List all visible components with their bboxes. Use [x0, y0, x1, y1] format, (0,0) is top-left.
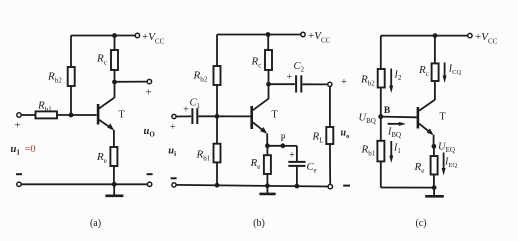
svg-text:P: P [280, 133, 285, 143]
wire Re upper c [433, 146, 435, 156]
wire Rb2 lower a [70, 86, 72, 115]
node B c [378, 114, 383, 119]
wire collector vertical b [268, 70, 270, 99]
svg-text:T: T [272, 110, 278, 121]
node emitter P junction b [265, 143, 270, 148]
label minus bottom left a [16, 173, 22, 175]
wire top rail a [71, 35, 135, 37]
node collector C2 tap b [266, 82, 271, 87]
svg-text:T: T [440, 112, 446, 123]
terminal +Vcc a [135, 33, 139, 37]
terminal +Vcc b [301, 32, 305, 36]
terminal output bottom b [328, 184, 332, 188]
transistor T a base bar [97, 104, 100, 125]
label minus bottom right a [147, 173, 153, 175]
terminal bottom left a [17, 182, 21, 186]
svg-text:B: B [384, 106, 391, 116]
node base junction a [69, 113, 74, 118]
transistor T b base bar [250, 106, 253, 129]
node Re bottom junction b [265, 183, 270, 188]
resistor Rc b [265, 50, 272, 70]
resistor Rc a [111, 50, 118, 70]
capacitor C1 b [191, 108, 193, 124]
wire Rc top b [267, 35, 269, 51]
svg-text:+: + [289, 150, 295, 161]
wire top rail b [217, 34, 301, 36]
ground c [433, 188, 435, 196]
transistor T c emitter diagonal with arrow [419, 124, 432, 134]
resistor Rb1 b [214, 144, 221, 163]
wire Rc top c [434, 36, 436, 64]
wire Re to bottom rail a [113, 166, 115, 184]
resistor Rc c [432, 63, 439, 81]
wire Ce branch down b [296, 146, 298, 161]
current arrow IEQ c [443, 153, 445, 170]
wire Re lower b [266, 174, 268, 186]
transistor T c collector diagonal [419, 100, 435, 111]
wire Rc top a [114, 36, 116, 51]
transistor T c base bar [417, 107, 420, 129]
node bottom junction c [432, 185, 437, 190]
svg-text:+: + [286, 72, 292, 83]
resistor Re b [264, 155, 271, 174]
wire collector to output terminal a [115, 81, 148, 83]
wire input to C1 b [176, 115, 191, 117]
node top-rail/Rc junction a [112, 33, 117, 38]
node base junction b [215, 114, 220, 119]
resistor Rb2 c [378, 69, 385, 88]
current arrow IBQ c [388, 123, 401, 125]
wire RL to bottom terminal b [329, 144, 331, 184]
svg-text:+: + [341, 77, 347, 88]
wire C2 to output terminal b [303, 83, 328, 85]
svg-text:+: + [145, 87, 151, 99]
resistor Rb1 a [36, 111, 58, 118]
resistor Rb2 a [68, 67, 75, 86]
svg-text:(c): (c) [415, 218, 426, 229]
wire collector vertical a [114, 70, 116, 98]
terminal bottom left b [172, 183, 176, 187]
node UEQ c [432, 144, 437, 149]
ground b [266, 186, 268, 193]
terminal output top a [147, 79, 151, 83]
svg-text:+: + [183, 105, 189, 116]
current arrow I2 c [390, 69, 392, 88]
transistor T b collector diagonal [253, 99, 269, 111]
node bottom rail junction a [112, 182, 117, 187]
node collector output tap a [112, 80, 117, 85]
wire Rb2 upper a [70, 36, 72, 68]
resistor Re a [110, 147, 117, 166]
wire Rb1 to base a [57, 114, 97, 116]
wire top rail c [381, 35, 468, 37]
wire emitter vertical c [433, 135, 435, 147]
wire Rb1 lower b [216, 162, 218, 185]
wire Rb2 upper c [380, 36, 382, 69]
label minus output b [343, 185, 350, 187]
node top-rail/Rc junction c [433, 33, 438, 38]
wire Rb2 upper b [216, 35, 218, 67]
current arrow I1 c [390, 141, 392, 157]
wire collector vertical c [434, 81, 436, 100]
transistor T b emitter diagonal with arrow [253, 122, 266, 132]
wire emitter vertical b [266, 133, 268, 145]
wire bottom rail b [176, 185, 328, 187]
current arrow ICQ c [444, 63, 446, 78]
wire Rb1 upper b [216, 116, 218, 143]
wire Rb1 upper c [380, 117, 382, 141]
svg-text:(b): (b) [253, 218, 265, 229]
wire C1 to base junction b [198, 115, 250, 117]
capacitor C2 b [295, 75, 297, 92]
ground a [113, 184, 115, 195]
wire Rb1 lower c [380, 161, 382, 187]
resistor RL b [326, 127, 333, 144]
capacitor Ce b [288, 161, 305, 163]
wire input to Rb1 a [21, 114, 35, 116]
wire Re upper b [266, 146, 268, 155]
terminal input a [17, 113, 21, 117]
terminal +Vcc c [468, 33, 472, 37]
node Ce bottom junction b [295, 184, 300, 189]
node top-rail/Rc junction b [266, 32, 271, 37]
resistor Rb2 b [214, 66, 221, 85]
svg-text:(a): (a) [90, 218, 101, 229]
transistor T a emitter diagonal with arrow [99, 120, 113, 130]
svg-text:=0: =0 [25, 144, 36, 155]
wire P to Ce corner b [267, 145, 297, 147]
wire Rb2 lower c [380, 88, 382, 117]
label minus bottom left b [171, 177, 177, 179]
transistor T a collector diagonal [99, 98, 115, 109]
wire output to RL b [329, 87, 331, 127]
wire Re lower c [433, 175, 435, 188]
svg-text:+: + [170, 122, 176, 133]
wire bottom rail c [381, 187, 437, 189]
resistor Rb1 c [377, 141, 384, 162]
resistor Re c [431, 156, 438, 175]
wire emitter vertical a [113, 130, 115, 147]
node Rb1 bottom junction b [215, 183, 220, 188]
wire Rb2 lower b [216, 85, 218, 116]
svg-text:T: T [119, 110, 125, 121]
terminal input b [172, 114, 176, 118]
node P dot b [280, 143, 285, 148]
wire Ce to bottom rail b [296, 167, 298, 186]
terminal bottom right a [147, 182, 151, 186]
wire collector to C2 b [269, 83, 295, 85]
wire base c [381, 116, 417, 119]
svg-text:+: + [14, 120, 20, 132]
terminal output top b [328, 82, 332, 86]
wire bottom rail a [21, 183, 147, 185]
